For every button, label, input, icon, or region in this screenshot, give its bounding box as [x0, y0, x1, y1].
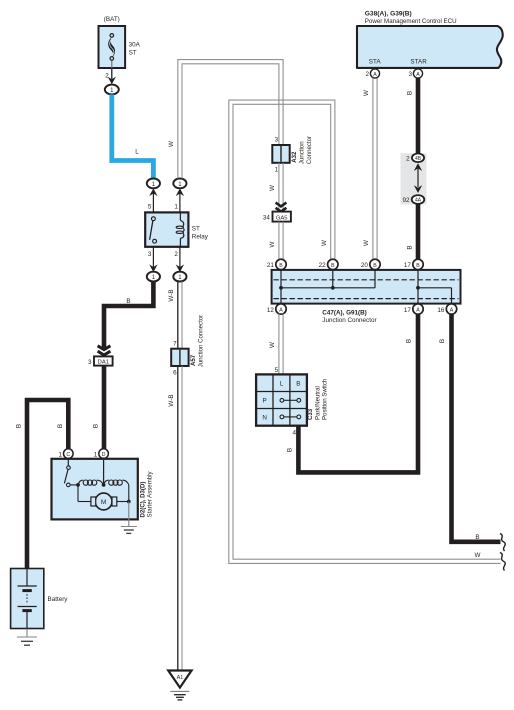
- pin 3 A of ECU (STAR): [408, 69, 422, 78]
- svg-text:B: B: [279, 263, 283, 269]
- svg-text:2: 2: [406, 156, 410, 163]
- pin 16 A of junction connector: [437, 304, 456, 314]
- svg-text:A: A: [416, 307, 420, 313]
- svg-text:22: 22: [319, 262, 327, 269]
- svg-text:92: 92: [402, 197, 410, 204]
- svg-text:A: A: [450, 307, 454, 313]
- pin 21 B of junction connector: [267, 259, 286, 269]
- svg-text:W: W: [269, 241, 276, 247]
- wire relay pin 5 lead with arrow up: [148, 188, 158, 212]
- battery: [11, 569, 69, 629]
- svg-text:Junction Connector: Junction Connector: [197, 315, 204, 368]
- wire relay pin 3 lead with arrow down: [148, 247, 158, 272]
- wire B battery to starter C: [16, 400, 69, 569]
- svg-text:4A: 4A: [415, 198, 422, 204]
- svg-text:Junction Connector: Junction Connector: [322, 317, 376, 324]
- svg-text:Starter Assembly: Starter Assembly: [147, 470, 154, 517]
- wire B relay to DA1: [104, 281, 153, 347]
- svg-text:B: B: [93, 424, 100, 428]
- wire L (blue) fuse to relay: [112, 94, 154, 178]
- break symbol right end of B wire: [500, 534, 505, 552]
- switch C33 Park/Neutral Position Switch: [256, 374, 329, 436]
- pin 1 C of starter: [58, 449, 73, 459]
- wire B DA1 to starter D: [93, 366, 105, 449]
- svg-text:L: L: [135, 149, 139, 156]
- pin 20 B of junction connector: [361, 259, 380, 269]
- svg-text:B: B: [16, 424, 23, 428]
- svg-text:1: 1: [275, 166, 279, 173]
- svg-text:A: A: [373, 72, 377, 78]
- break symbol right end of W wire: [500, 553, 505, 571]
- svg-text:B: B: [439, 339, 446, 343]
- ECU G38(A) G39(B) Power Management Control ECU: [357, 11, 503, 68]
- svg-text:C47(A), G91(B): C47(A), G91(B): [322, 310, 366, 317]
- svg-text:4: 4: [292, 430, 296, 437]
- node 1 below relay pin 2: [173, 272, 186, 282]
- wire W-B relay pin2 to A57: [168, 281, 182, 348]
- svg-text:Junction: Junction: [298, 141, 305, 164]
- svg-text:W: W: [168, 141, 175, 147]
- svg-text:B: B: [126, 298, 130, 305]
- wire W 12A to C33 pin 5: [269, 314, 283, 375]
- svg-text:17: 17: [404, 307, 412, 314]
- svg-text:(BAT): (BAT): [104, 16, 120, 23]
- svg-text:17: 17: [404, 262, 412, 269]
- svg-text:B: B: [296, 381, 300, 388]
- svg-text:5: 5: [275, 367, 279, 374]
- svg-text:W-B: W-B: [168, 394, 175, 406]
- svg-text:3: 3: [148, 251, 152, 258]
- ground point GA5: [263, 203, 291, 222]
- pin 2 A of ECU (STA): [365, 69, 379, 78]
- svg-text:B: B: [416, 263, 420, 269]
- fuse 30A ST: [99, 16, 141, 79]
- svg-text:Power Management Control ECU: Power Management Control ECU: [365, 18, 457, 25]
- svg-text:N: N: [262, 415, 267, 422]
- svg-text:B: B: [475, 534, 479, 541]
- svg-text:B: B: [373, 263, 377, 269]
- svg-text:1: 1: [94, 451, 98, 458]
- svg-text:STA: STA: [369, 59, 382, 66]
- wire B 16A to right edge: [439, 314, 500, 542]
- svg-text:B: B: [406, 245, 413, 249]
- svg-text:P: P: [262, 398, 266, 405]
- svg-text:7: 7: [173, 341, 177, 348]
- junction connector A32: [272, 136, 313, 173]
- svg-text:GA5: GA5: [276, 215, 288, 221]
- svg-text:STAR: STAR: [410, 59, 427, 66]
- svg-text:A57: A57: [190, 354, 197, 366]
- svg-text:Position Switch: Position Switch: [322, 379, 329, 420]
- svg-text:6: 6: [173, 370, 177, 377]
- svg-text:W-B: W-B: [168, 289, 175, 301]
- svg-text:30A: 30A: [129, 42, 141, 49]
- svg-text:A1: A1: [177, 675, 184, 681]
- in-line connector 4B/4A (gray block): [401, 153, 427, 204]
- node 1 below relay pin 3: [147, 272, 160, 282]
- pin 12 A of junction connector: [267, 304, 286, 314]
- svg-text:B: B: [287, 448, 294, 452]
- svg-text:2: 2: [365, 71, 369, 78]
- svg-text:W: W: [269, 185, 276, 191]
- wire relay pin 1 lead with arrow up: [174, 188, 184, 212]
- wire B STAR to 4B: [406, 78, 418, 154]
- junction connector A57: [171, 315, 204, 377]
- svg-text:B: B: [406, 339, 413, 343]
- ground point DA1: [88, 346, 113, 366]
- ground below battery: [17, 629, 37, 646]
- svg-text:B: B: [331, 263, 335, 269]
- svg-text:W: W: [321, 240, 328, 246]
- svg-text:C33: C33: [307, 408, 314, 420]
- node 1 below fuse: [105, 85, 119, 95]
- svg-text:5: 5: [148, 204, 152, 211]
- svg-text:G38(A), G39(B): G38(A), G39(B): [365, 11, 412, 18]
- svg-text:L: L: [280, 381, 284, 388]
- svg-text:ST: ST: [192, 226, 200, 233]
- svg-text:A32: A32: [291, 151, 298, 163]
- svg-text:ST: ST: [129, 50, 137, 57]
- pin 22 B of junction connector: [319, 259, 338, 269]
- wire B C33 pin4 to junction 17A: [287, 314, 418, 473]
- pin 17 B of junction connector: [404, 259, 423, 269]
- pin 17 A of junction connector: [404, 304, 423, 314]
- svg-text:1: 1: [174, 204, 178, 211]
- ground point A1: [168, 671, 191, 700]
- svg-text:34: 34: [263, 214, 271, 221]
- svg-text:3: 3: [408, 71, 412, 78]
- svg-text:Battery: Battery: [48, 596, 69, 603]
- svg-text:3: 3: [88, 359, 92, 366]
- relay ST Relay: [145, 212, 209, 246]
- svg-text:W: W: [475, 552, 481, 559]
- svg-text:C: C: [66, 452, 70, 458]
- svg-text:D: D: [102, 452, 106, 458]
- node 1 above relay pin 5: [147, 179, 160, 189]
- wire W relay pin1 up and over to A32: [168, 60, 283, 179]
- svg-text:21: 21: [267, 262, 275, 269]
- svg-text:M: M: [101, 499, 107, 506]
- svg-text:W: W: [363, 240, 370, 246]
- ground below starter: [121, 502, 137, 534]
- svg-text:2: 2: [174, 251, 178, 258]
- svg-text:B: B: [57, 424, 64, 428]
- svg-text:Connector: Connector: [306, 136, 313, 164]
- wire W STA to junction 20B: [363, 78, 377, 259]
- wire W A32 to GA5: [269, 163, 283, 212]
- svg-text:1: 1: [58, 451, 62, 458]
- wire B 4A to junction 17B: [406, 204, 418, 259]
- junction connector C47(A) G91(B): [272, 270, 461, 324]
- svg-text:W: W: [269, 342, 276, 348]
- svg-text:DA1: DA1: [98, 360, 109, 366]
- svg-text:B: B: [406, 91, 413, 95]
- wire W-B A57 to A1: [168, 366, 182, 671]
- svg-text:16: 16: [437, 307, 445, 314]
- wire relay pin 2 lead with arrow down: [174, 247, 184, 272]
- wire W 22B up over and down to right edge: [229, 100, 501, 563]
- svg-text:A: A: [279, 307, 283, 313]
- svg-text:3: 3: [275, 137, 279, 144]
- svg-text:12: 12: [267, 307, 275, 314]
- svg-text:Park/Neutral: Park/Neutral: [314, 386, 321, 420]
- svg-text:W: W: [363, 90, 370, 96]
- pin 2 of fuse: [105, 68, 116, 84]
- pin 1 D of starter: [94, 449, 109, 459]
- svg-text:Relay: Relay: [192, 234, 209, 241]
- starter assembly D2(C) D3(D): [52, 459, 154, 520]
- svg-text:20: 20: [361, 262, 369, 269]
- node 1 above relay pin 1: [173, 179, 186, 189]
- svg-text:A: A: [416, 72, 420, 78]
- svg-text:D2(C), D3(D): D2(C), D3(D): [140, 482, 147, 518]
- wire W GA5 to junction 21B: [269, 222, 283, 260]
- svg-text:4B: 4B: [415, 156, 422, 162]
